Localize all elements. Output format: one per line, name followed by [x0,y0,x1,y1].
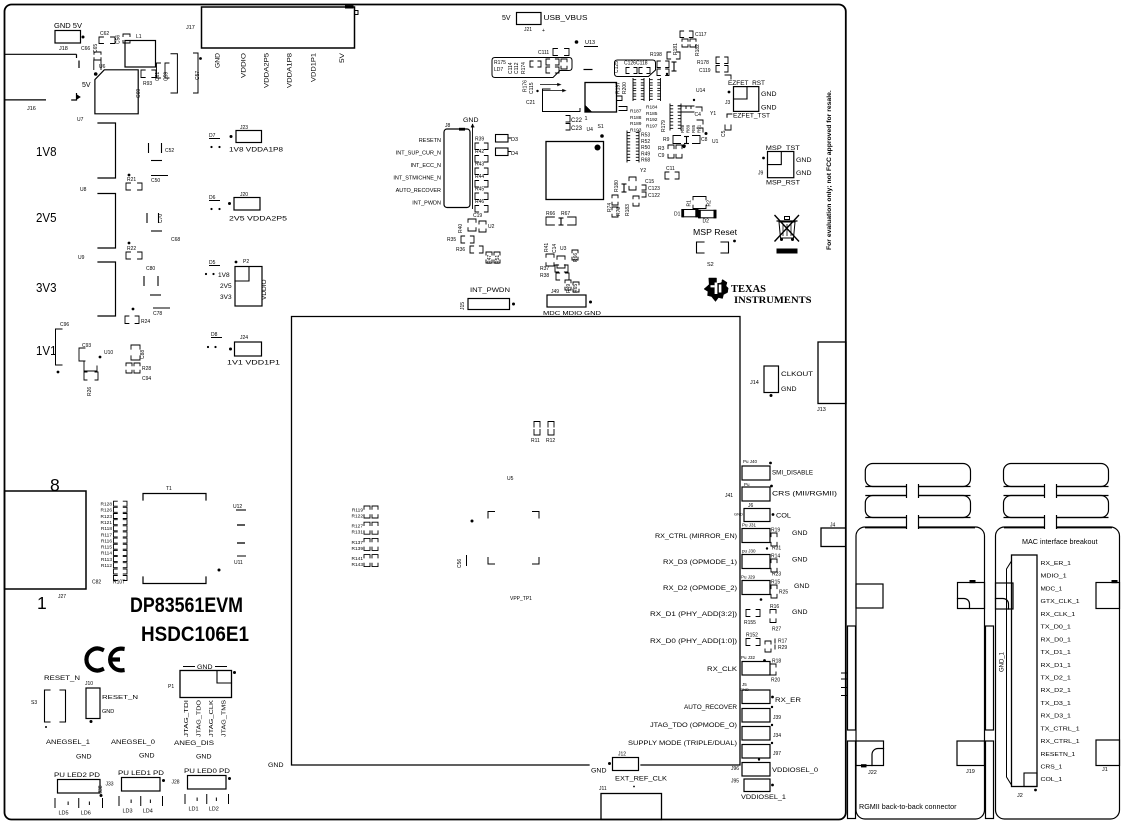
svg-text:J11: J11 [599,786,607,792]
board A outline (RGMII back-to-back connector) [856,527,985,819]
svg-text:MAC interface breakout: MAC interface breakout [1022,537,1098,546]
svg-text:R112: R112 [101,563,112,569]
svg-text:RX_ER_1: RX_ER_1 [1041,561,1071,567]
svg-text:U6: U6 [99,64,106,70]
svg-text:RESETN_1: RESETN_1 [1041,752,1076,758]
svg-text:Pu J40: Pu J40 [743,459,758,464]
svg-text:R119: R119 [352,508,363,514]
svg-text:VDDIOSEL_0: VDDIOSEL_0 [772,768,819,774]
svg-text:R25: R25 [779,590,788,596]
board B meander bar 1 [1004,464,1109,487]
capacitor C50 [151,175,168,177]
svg-text:U4: U4 [587,127,594,133]
svg-text:J28: J28 [172,780,180,786]
LEDs LD1 LD2 [184,794,186,804]
svg-text:J16: J16 [27,106,36,112]
capacitors C125 C126 C118 outline [615,60,656,77]
svg-text:MSP Reset: MSP Reset [693,228,738,237]
svg-text:R91: R91 [697,124,702,133]
svg-text:J19: J19 [966,769,975,775]
CE mark [86,649,102,671]
svg-text:COL: COL [776,514,792,520]
svg-text:R88: R88 [680,124,685,133]
svg-text:GND: GND [196,755,212,761]
svg-text:J95: J95 [731,779,739,785]
svg-text:C52: C52 [165,148,174,154]
svg-text:C9: C9 [658,153,665,159]
LEDs LD3 LD4 [118,796,120,806]
svg-text:pu J30: pu J30 [742,549,756,554]
svg-text:R26: R26 [87,387,93,396]
svg-text:R128: R128 [101,502,113,508]
resistor R24 [125,316,129,324]
svg-text:U8: U8 [80,187,87,193]
svg-text:TX_D0_1: TX_D0_1 [1041,625,1071,631]
svg-text:R188: R188 [630,115,642,121]
svg-text:R137: R137 [352,540,364,546]
svg-text:R28: R28 [142,366,151,372]
svg-text:R17: R17 [778,639,787,645]
svg-text:INT_STMICHNE_N: INT_STMICHNE_N [393,176,441,182]
svg-text:C96: C96 [60,322,69,328]
svg-text:R37: R37 [540,266,549,272]
GND_1 bracket [1007,561,1012,785]
svg-text:GND: GND [761,91,777,98]
svg-text:J1: J1 [1102,767,1108,773]
R11 R12 marks [534,422,540,428]
resistor R21 [128,174,131,177]
svg-text:2V5: 2V5 [220,283,232,290]
svg-text:AUTO_RECOVER: AUTO_RECOVER [684,705,738,711]
PHY module outline U5 [292,317,741,766]
svg-text:RX_CTRL (MIRROR_EN): RX_CTRL (MIRROR_EN) [655,534,737,540]
svg-text:GTX_CLK_1: GTX_CLK_1 [1041,599,1080,605]
svg-text:C82: C82 [92,580,101,586]
svg-text:R115: R115 [101,545,112,551]
svg-text:R66: R66 [546,211,555,217]
U13 testpoint [575,40,579,44]
tab J1 [1096,740,1120,766]
panel rail mid upper [986,626,994,730]
svg-text:VDDIO: VDDIO [261,279,268,300]
svg-text:J8: J8 [445,123,451,129]
svg-text:R31: R31 [772,546,781,552]
svg-text:ANEGSEL_1: ANEGSEL_1 [46,740,91,746]
svg-text:R3: R3 [658,146,665,152]
TI logo [704,278,728,302]
svg-text:JTAG_TDI: JTAG_TDI [184,699,190,737]
svg-text:C126C118: C126C118 [624,61,648,67]
svg-text:C115: C115 [529,82,535,94]
svg-text:J13: J13 [817,407,826,413]
svg-text:MDC_1: MDC_1 [1041,586,1063,592]
svg-text:INT_PWDN: INT_PWDN [412,201,441,207]
resistor R28 / capacitor C94 [126,363,132,366]
WEEE bin icon [779,222,795,238]
connector J2 (MAC breakout) [1012,555,1038,787]
capacitor C61 [157,63,161,78]
svg-text:+: + [542,28,545,34]
svg-text:RX_D0_1: RX_D0_1 [1041,637,1071,643]
U11 mark [237,555,246,557]
svg-text:C123: C123 [648,186,660,192]
connector J4 [821,528,846,547]
svg-text:R197: R197 [616,82,622,94]
svg-text:RX_CLK_1: RX_CLK_1 [1041,612,1076,618]
svg-text:D3: D3 [511,137,518,143]
svg-text:J15: J15 [460,302,466,310]
jumper J96 [742,763,770,777]
resistor R93 [141,70,145,78]
svg-text:R113: R113 [101,557,112,563]
svg-text:U11: U11 [234,560,243,566]
svg-text:R121: R121 [101,520,113,526]
svg-text:1: 1 [37,593,47,613]
svg-text:C111: C111 [538,50,549,56]
svg-text:CLKOUT: CLKOUT [781,371,813,378]
svg-text:VDDIO: VDDIO [241,53,248,78]
IC corner fiducials [488,512,495,519]
svg-text:SUPPLY MODE (TRIPLE/DUAL): SUPPLY MODE (TRIPLE/DUAL) [628,741,737,747]
svg-text:5V: 5V [82,82,91,89]
svg-text:R20: R20 [771,678,780,684]
svg-text:R141: R141 [352,556,364,562]
svg-text:GND: GND [794,583,810,590]
svg-text:GND: GND [102,709,114,715]
svg-text:CRS_1: CRS_1 [1041,765,1063,771]
svg-text:C5: C5 [721,130,727,137]
svg-text:J33: J33 [106,782,114,788]
svg-text:GND: GND [76,755,92,761]
board B outline (MAC interface breakout) [996,527,1120,819]
board A meander bar 1 [865,464,970,487]
tab board B right upper [1096,583,1120,609]
svg-text:C94: C94 [142,376,151,382]
svg-text:8: 8 [50,475,60,495]
svg-text:LD6: LD6 [81,811,91,817]
svg-text:INSTRUMENTS: INSTRUMENTS [734,295,812,306]
svg-text:C62: C62 [100,31,109,37]
svg-text:2V5: 2V5 [36,211,57,225]
svg-text:C68: C68 [171,237,180,243]
network R53 R52 R50 R49 R68 [626,131,628,162]
svg-text:R42: R42 [475,149,484,155]
svg-text:TX_D1_1: TX_D1_1 [1041,650,1071,656]
tab J19 [957,741,985,766]
svg-text:R46: R46 [475,199,484,205]
svg-text:C70: C70 [158,214,164,223]
board A meander bar 2 [865,496,970,518]
svg-text:C23: C23 [571,126,583,132]
capacitor C59 [165,63,169,78]
svg-text:R45: R45 [475,187,484,193]
svg-text:C14: C14 [552,244,558,253]
svg-text:LD7: LD7 [494,67,503,73]
svg-text:GND: GND [796,157,812,164]
connector J16 [5,53,77,55]
svg-text:J97: J97 [773,751,781,757]
svg-text:J49: J49 [551,289,559,295]
svg-text:R117: R117 [101,532,112,538]
tab board A right upper [958,583,985,609]
svg-text:J9: J9 [758,171,764,177]
svg-text:C22: C22 [571,118,583,124]
svg-text:U14: U14 [696,88,705,94]
svg-text:C122: C122 [648,193,660,199]
svg-text:L1: L1 [136,34,142,40]
svg-text:RESETN: RESETN [419,138,441,144]
svg-text:P1: P1 [168,684,174,690]
svg-text:AUTO_RECOVER: AUTO_RECOVER [396,188,441,194]
svg-text:R192: R192 [646,117,658,123]
svg-text:GND: GND [463,118,479,124]
svg-text:R131: R131 [352,530,364,536]
svg-text:R68: R68 [641,158,650,164]
svg-text:R139: R139 [352,546,364,552]
svg-text:C59: C59 [164,72,170,81]
svg-text:R182: R182 [695,44,701,56]
svg-text:U1: U1 [712,139,719,145]
svg-text:PU LED2 PD: PU LED2 PD [54,773,101,779]
svg-text:INT_ECC_N: INT_ECC_N [410,163,441,169]
svg-text:C69: C69 [136,89,142,98]
svg-text:Pu J31: Pu J31 [742,523,757,528]
svg-text:C125: C125 [614,61,620,73]
svg-text:R89: R89 [686,124,691,133]
diode D4 [496,148,509,156]
svg-text:R39: R39 [475,137,484,143]
svg-text:LD3: LD3 [123,809,133,815]
svg-text:VDDA1P8: VDDA1P8 [287,53,294,88]
svg-text:R152: R152 [746,633,758,639]
capacitor C70 [146,213,148,223]
svg-text:1V8 VDDA1P8: 1V8 VDDA1P8 [229,147,283,154]
svg-text:U10: U10 [104,350,113,356]
svg-text:R198: R198 [650,52,662,58]
svg-text:J39: J39 [773,715,781,721]
capacitor C78 [132,308,135,311]
svg-text:C21: C21 [526,100,535,106]
svg-text:S2: S2 [707,262,714,268]
svg-text:Y1: Y1 [710,111,716,117]
regulator U7 body [95,70,138,114]
svg-text:EZFET_TST: EZFET_TST [733,114,770,120]
svg-text:COL_1: COL_1 [1041,777,1063,783]
rail tab marks [841,672,848,674]
svg-text:R123: R123 [101,514,113,520]
svg-text:R23: R23 [772,572,781,578]
svg-text:C8: C8 [701,137,708,143]
svg-text:U12: U12 [233,504,242,510]
connector J17 [202,7,355,48]
svg-text:Pu J29: Pu J29 [741,575,756,580]
svg-text:R93: R93 [143,81,152,87]
svg-text:T1: T1 [166,486,172,492]
svg-text:J4: J4 [830,523,836,529]
svg-text:J17: J17 [186,25,195,31]
svg-text:R1: R1 [687,200,693,207]
svg-text:R41: R41 [544,243,550,252]
svg-text:5V: 5V [502,15,511,22]
svg-text:R24: R24 [141,319,150,325]
svg-text:D2: D2 [703,219,710,225]
svg-text:R9: R9 [663,137,670,143]
svg-text:J38: J38 [98,785,104,793]
capacitor C52 [148,143,150,153]
svg-text:GND 5V: GND 5V [54,21,82,30]
svg-text:GND: GND [268,762,284,769]
capacitor C117 [680,31,684,38]
svg-text:LD1: LD1 [189,807,199,813]
LED LD7 group outline [492,58,572,78]
svg-text:R52: R52 [641,139,650,145]
svg-text:J18: J18 [59,46,68,52]
svg-text:C117: C117 [695,32,707,38]
svg-text:D4: D4 [511,151,518,157]
tab J22 [856,741,884,766]
svg-text:P2: P2 [243,259,249,265]
svg-text:JTAG_TMS: JTAG_TMS [222,700,228,737]
svg-text:3V3: 3V3 [220,294,232,301]
svg-text:MDIO_1: MDIO_1 [1041,574,1067,580]
svg-text:R187: R187 [630,109,642,115]
svg-text:GND: GND [781,386,797,393]
horizontal network [678,106,694,112]
svg-text:RX_D3 (OPMODE_1): RX_D3 (OPMODE_1) [663,560,737,566]
svg-text:J96: J96 [731,766,739,772]
svg-text:RESET_N: RESET_N [102,695,138,701]
svg-text:1V8: 1V8 [36,145,57,159]
svg-text:DP83561EVM: DP83561EVM [130,594,243,617]
svg-text:J27: J27 [58,594,66,600]
svg-text:D1: D1 [674,212,681,218]
svg-text:U13: U13 [585,40,595,46]
svg-text:U3: U3 [560,246,567,252]
svg-text:R189: R189 [630,121,642,127]
svg-text:C112: C112 [514,62,520,74]
svg-text:3V3: 3V3 [36,281,57,295]
svg-text:Y2: Y2 [640,168,646,174]
svg-text:R127: R127 [352,524,364,530]
svg-text:C11: C11 [666,166,675,172]
svg-text:J22: J22 [868,770,877,776]
svg-text:U9: U9 [78,255,85,261]
svg-text:RGMII back-to-back connector: RGMII back-to-back connector [859,802,957,811]
svg-text:R200: R200 [622,82,628,94]
svg-text:JTAG_CLK: JTAG_CLK [209,700,215,737]
svg-text:TX_D3_1: TX_D3_1 [1041,701,1071,707]
svg-text:RX_ER: RX_ER [775,698,802,704]
svg-text:ANEG_DIS: ANEG_DIS [174,741,214,747]
svg-text:R126: R126 [101,508,113,514]
svg-text:R179: R179 [661,120,667,132]
R179 network and C4 [669,104,671,130]
footprints right of C125 block [657,61,660,68]
svg-text:R35: R35 [447,237,456,243]
svg-text:PU LED0 PD: PU LED0 PD [184,769,231,775]
svg-text:R180: R180 [614,180,620,192]
svg-text:1V1: 1V1 [36,344,57,358]
svg-text:R107: R107 [113,580,125,586]
svg-text:HSDC106E1: HSDC106E1 [141,623,249,646]
svg-text:RX_CTRL_1: RX_CTRL_1 [1041,739,1080,745]
svg-text:JTAG_TDO (OPMODE_O): JTAG_TDO (OPMODE_O) [650,723,737,729]
svg-text:RX_D2_1: RX_D2_1 [1041,688,1071,694]
svg-text:SMI_DISABLE: SMI_DISABLE [772,471,813,477]
svg-text:R85: R85 [691,124,696,133]
svg-text:R43: R43 [475,162,484,168]
svg-text:U7: U7 [77,117,84,123]
svg-text:R44: R44 [475,174,484,180]
board B meander necks [1045,482,1057,530]
svg-text:VDDIOSEL_1: VDDIOSEL_1 [741,795,787,801]
svg-text:R178: R178 [697,60,709,66]
svg-text:TX_D2_1: TX_D2_1 [1041,675,1071,681]
svg-text:U5: U5 [507,476,514,482]
svg-text:R29: R29 [778,645,787,651]
svg-text:CRS (MII/RGMII): CRS (MII/RGMII) [772,492,837,498]
svg-text:C4: C4 [695,112,702,118]
board A meander necks [907,482,919,530]
svg-text:J14: J14 [750,380,759,386]
svg-text:R183: R183 [625,204,631,216]
svg-text:R184: R184 [646,105,658,111]
svg-text:Pu J32: Pu J32 [741,655,756,660]
svg-text:1V8: 1V8 [218,272,230,279]
svg-text:RESET_N: RESET_N [44,676,80,682]
svg-text:GND: GND [796,170,812,177]
svg-text:R174: R174 [521,62,527,74]
svg-text:R143: R143 [352,562,364,568]
svg-text:GND: GND [792,557,808,564]
svg-text:INT_SUP_CUR_N: INT_SUP_CUR_N [396,151,441,157]
capacitor C57 bracket [194,53,199,93]
resistor R22 [128,242,131,245]
svg-text:GND: GND [591,768,607,775]
svg-text:R116: R116 [101,538,112,544]
svg-text:RX_D1 (PHY_ADD[3:2]): RX_D1 (PHY_ADD[3:2]) [650,612,737,618]
svg-text:C119: C119 [699,68,711,74]
panel rail left upper [848,626,856,730]
capacitor C63 bracket [171,54,177,93]
tab board B left upper [996,583,1014,609]
svg-text:J41: J41 [725,493,733,499]
svg-text:GND: GND [215,53,222,68]
svg-text:U2: U2 [488,224,495,230]
svg-text:MSP_RST: MSP_RST [766,180,800,187]
svg-text:C19: C19 [473,213,482,219]
svg-text:INT_PWDN: INT_PWDN [470,288,510,294]
PHY ic [546,142,604,200]
connector J27 (RJ45) [5,491,87,589]
svg-text:RX_D3_1: RX_D3_1 [1041,714,1071,720]
svg-text:LD4: LD4 [143,809,153,815]
svg-text:J10: J10 [85,681,93,687]
svg-text:For evaluation only; not FCC a: For evaluation only; not FCC approved fo… [826,90,833,250]
svg-text:RX_CLK: RX_CLK [707,667,737,673]
svg-text:5V: 5V [339,52,346,63]
svg-text:1V1 VDD1P1: 1V1 VDD1P1 [227,360,281,367]
diode D3 [496,135,509,143]
svg-text:R50: R50 [641,145,650,151]
svg-text:ANEGSEL_0: ANEGSEL_0 [111,740,156,746]
svg-text:J12: J12 [618,752,626,758]
capacitors C22 C23 [566,116,570,123]
svg-text:GND_1: GND_1 [1000,651,1006,672]
svg-text:GND: GND [139,754,155,760]
svg-text:C88: C88 [140,350,146,359]
svg-text:R114: R114 [101,551,112,557]
